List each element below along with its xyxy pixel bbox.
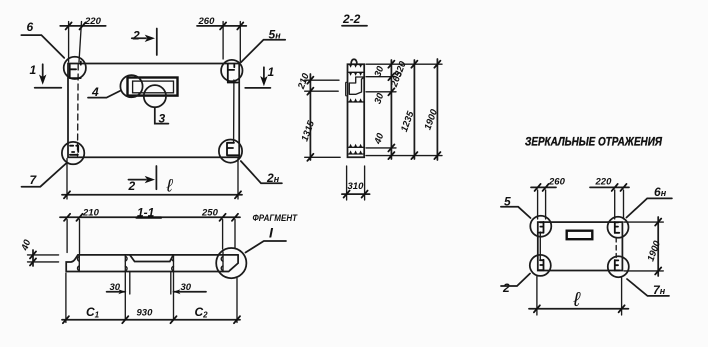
svg-text:210: 210 xyxy=(82,208,100,219)
lifting loop xyxy=(351,59,357,64)
svg-text:310: 310 xyxy=(348,181,365,192)
mirror corner circle 6н (top-right) xyxy=(608,217,629,238)
callout label 5н xyxy=(241,28,285,63)
title 1-1 xyxy=(137,206,155,220)
panel outline xyxy=(68,64,239,158)
dimension 260 (top-right) xyxy=(197,16,246,62)
svg-text:260: 260 xyxy=(198,16,216,27)
mirror callout 7н xyxy=(627,279,669,297)
mirror dims 260 / 220 xyxy=(531,177,629,220)
title 2-2 xyxy=(342,12,367,26)
svg-text:ФРАГМЕНТ: ФРАГМЕНТ xyxy=(253,213,299,224)
svg-text:ℓ: ℓ xyxy=(166,176,174,196)
callout circle 4 xyxy=(88,75,143,99)
callout circle 3 xyxy=(144,85,169,125)
section mark 1 (left) xyxy=(30,63,62,88)
left dims 210 / 1315 xyxy=(296,71,341,161)
mirror corner circle 5 (top-left) xyxy=(530,216,551,237)
right dashed line xyxy=(615,238,617,258)
embedded plate item 4 xyxy=(128,78,178,96)
callout label 7 xyxy=(22,164,67,188)
mid hatch row xyxy=(348,98,365,102)
corner detail circle 2н (bottom-right) xyxy=(219,140,242,163)
corner detail circle 6 (top-left) xyxy=(64,57,86,79)
svg-text:3: 3 xyxy=(159,112,166,126)
section mark 1 (right) xyxy=(245,65,274,88)
callout label 2н xyxy=(241,161,282,185)
mirror callout 2 xyxy=(501,274,530,296)
inner edge line right xyxy=(233,80,235,142)
dimension 220 (top-left) xyxy=(60,16,105,62)
rib cut marks xyxy=(78,252,224,272)
mirror panel outline xyxy=(538,222,623,270)
dimension 40 (left of 1-1) xyxy=(19,238,58,266)
keyway notch xyxy=(346,77,365,96)
left double line xyxy=(539,232,541,260)
extension lines of 210/250 xyxy=(67,220,235,254)
mirror dim l (bottom) xyxy=(529,277,628,316)
dimension l (bottom of plan) xyxy=(62,159,242,200)
section body 1-1 xyxy=(66,255,238,272)
svg-text:930: 930 xyxy=(137,308,154,319)
svg-text:250: 250 xyxy=(201,208,219,219)
svg-text:6н: 6н xyxy=(654,185,667,199)
column outline xyxy=(348,64,365,157)
svg-text:4: 4 xyxy=(91,85,99,99)
svg-text:2: 2 xyxy=(132,29,140,43)
svg-text:260: 260 xyxy=(548,177,566,188)
svg-text:2: 2 xyxy=(128,179,136,193)
callout label 6 xyxy=(21,20,64,58)
svg-text:30: 30 xyxy=(181,282,192,293)
svg-text:1: 1 xyxy=(268,65,275,79)
dimension line 210 / 250 xyxy=(60,208,240,221)
fragment circle I xyxy=(216,213,298,278)
svg-text:220: 220 xyxy=(595,177,613,188)
svg-text:6: 6 xyxy=(27,20,34,34)
corner detail circle 5н (top-right) xyxy=(221,60,242,83)
mirror corner circle 7н (bottom-right) xyxy=(608,256,629,277)
bottom hatch band xyxy=(348,144,365,154)
dashed edge line left xyxy=(77,64,80,156)
svg-text:220: 220 xyxy=(84,16,102,27)
mirror callout 6н xyxy=(627,185,672,218)
svg-text:1: 1 xyxy=(30,63,37,77)
top hatch band xyxy=(348,64,365,76)
svg-text:7н: 7н xyxy=(653,283,666,297)
right dims 30/265/320/30/1235/40/1900 xyxy=(366,59,442,160)
svg-text:2: 2 xyxy=(502,281,510,295)
mirror dim 1900 (right) xyxy=(624,217,663,276)
svg-text:2-2: 2-2 xyxy=(342,12,361,26)
svg-text:30: 30 xyxy=(110,282,121,293)
corner detail circle 7 (bottom-left) xyxy=(62,142,84,164)
bottom dimension line C1 930 C2 xyxy=(62,273,240,323)
mirror embedded plate xyxy=(567,231,593,240)
title xyxy=(525,135,662,149)
section mark 2 (top) xyxy=(132,29,157,56)
dimensions 30 30 below section xyxy=(107,272,206,320)
svg-text:ЗЕРКАЛЬНЫЕ ОТРАЖЕНИЯ: ЗЕРКАЛЬНЫЕ ОТРАЖЕНИЯ xyxy=(525,135,662,149)
section mark 2 (bottom) xyxy=(128,166,157,193)
mirror corner circle 2 (bottom-left) xyxy=(530,255,551,276)
dim 310 (bottom of 2-2) xyxy=(342,166,370,200)
mirror callout 5 xyxy=(501,195,531,219)
